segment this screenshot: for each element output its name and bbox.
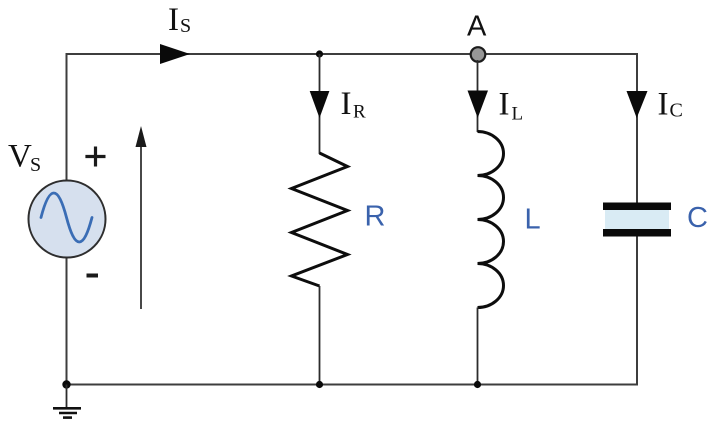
wire: resistor branch lower lead (319, 286, 321, 385)
capacitor C top plate (603, 203, 671, 211)
svg-text:I: I (168, 2, 179, 38)
wire: capacitor branch upper lead (636, 54, 638, 204)
svg-text:R: R (365, 201, 386, 233)
svg-text:C: C (687, 202, 708, 234)
svg-text:L: L (512, 104, 524, 125)
svg-text:V: V (8, 139, 32, 175)
wire: left branch upper lead (source top) (66, 53, 68, 182)
current arrow IS (rightward on top rail) (160, 44, 190, 64)
junction: bottom rail / resistor branch (316, 381, 323, 388)
capacitor C bottom plate (603, 229, 671, 237)
voltage source VS (AC) (29, 181, 106, 258)
svg-text:C: C (670, 100, 683, 122)
inductor L (478, 132, 504, 308)
current arrow IL (468, 91, 489, 119)
svg-text:S: S (180, 15, 191, 37)
wire: left branch lower lead (source bottom) (66, 256, 68, 385)
voltage reference arrow (upward) (140, 144, 142, 309)
svg-text:S: S (30, 154, 41, 176)
wire: capacitor branch lower lead (636, 237, 638, 386)
wire: inductor branch upper lead (477, 60, 479, 132)
current arrow IC (627, 91, 648, 118)
wire: bottom rail (67, 384, 639, 386)
polarity plus sign (85, 147, 105, 167)
wire: top rail from source to capacitor branch (66, 53, 639, 55)
polarity minus sign (87, 274, 99, 278)
ground stem (66, 385, 68, 409)
svg-text:R: R (353, 102, 366, 123)
sine symbol inside source (41, 193, 92, 242)
svg-text:I: I (499, 87, 510, 123)
svg-text:I: I (341, 86, 352, 122)
svg-text:L: L (525, 204, 541, 236)
junction: top rail / resistor branch (316, 50, 323, 57)
current arrow IR (310, 91, 330, 118)
node A (grey terminal) (471, 47, 486, 62)
junction: bottom rail / inductor branch (474, 381, 481, 388)
wire: inductor branch lower lead (477, 308, 479, 386)
ground bar 1 (53, 407, 81, 410)
ground bar 3 (63, 416, 72, 419)
junction: bottom rail / source branch (62, 380, 70, 388)
ground bar 2 (59, 412, 77, 415)
svg-text:A: A (467, 11, 487, 43)
resistor R (292, 153, 348, 286)
wire: resistor branch upper lead (319, 54, 321, 154)
svg-text:I: I (658, 87, 669, 123)
capacitor C dielectric fill (605, 209, 669, 230)
